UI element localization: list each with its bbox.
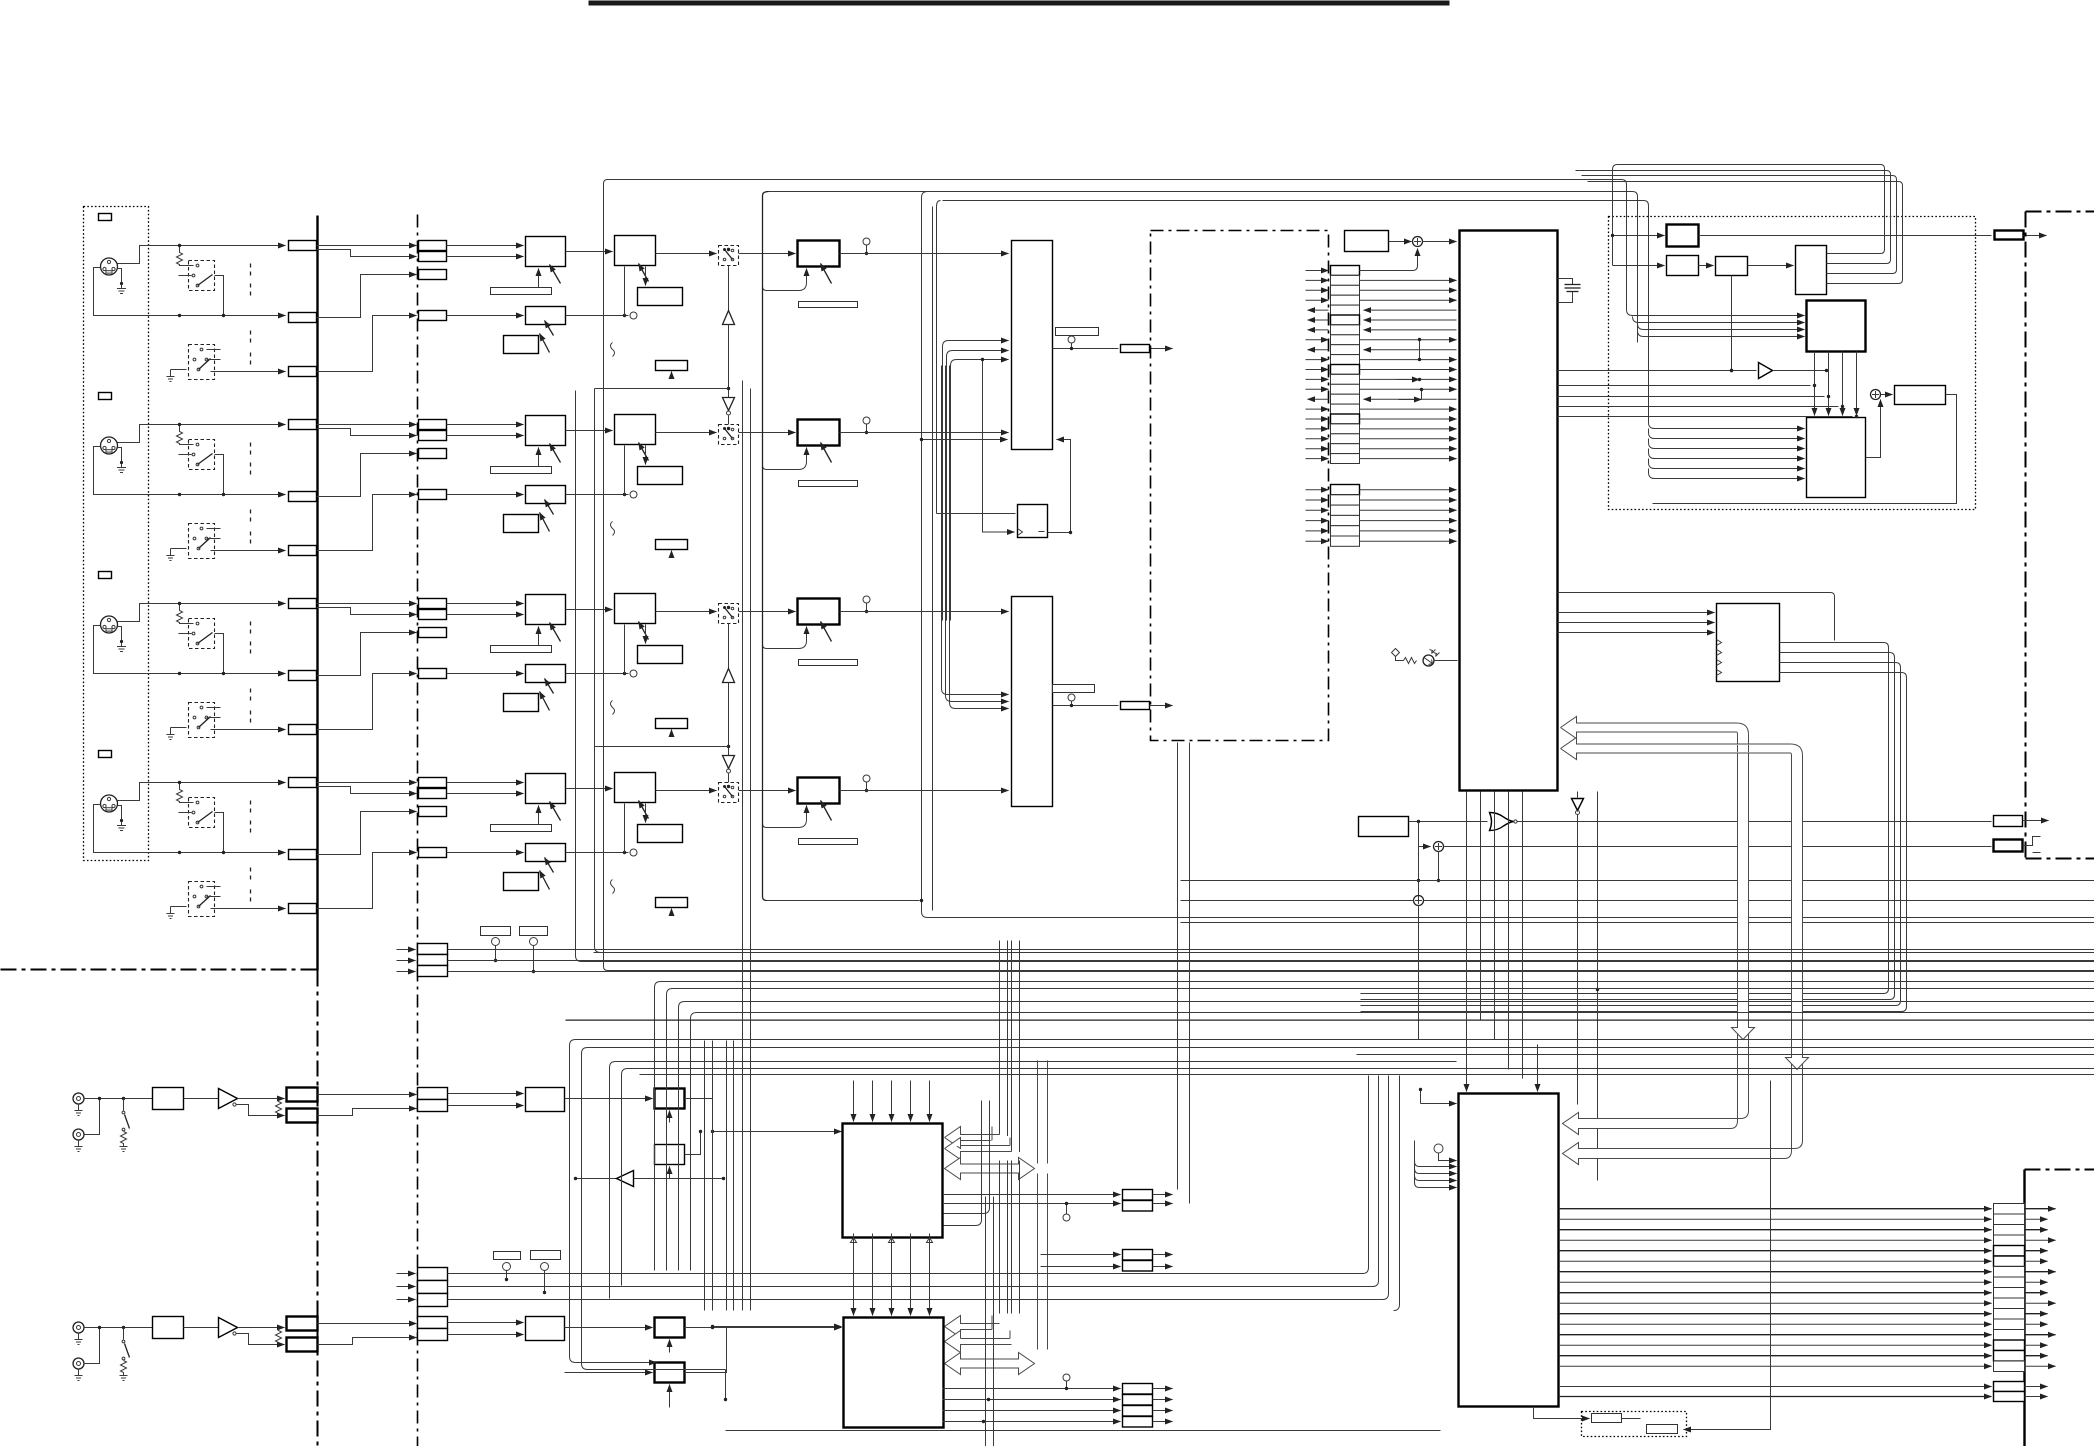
selector 2 curved inputs (942, 366, 1009, 695)
bus B direction arrow (1786, 1053, 1809, 1070)
dsp1 outputs (943, 1194, 1121, 1196)
osc output to connector (1699, 235, 1992, 237)
status connector 2 (1994, 840, 2023, 852)
divider box 2 (1716, 257, 1748, 276)
interface outputs loop (1361, 643, 1889, 994)
bus tap stack upper (418, 944, 448, 955)
main DSP/CPU block (1460, 231, 1558, 791)
codec mid branches (1419, 340, 1421, 360)
codec pin header lower (1331, 485, 1360, 495)
divider curved inputs (1649, 419, 1805, 429)
DSP2 bidirectional bus (945, 1353, 1035, 1375)
long control lines (1181, 880, 2094, 882)
CPU bottom drop wires (1466, 792, 1468, 1037)
inverter below CPU (1577, 792, 1579, 798)
clock selector (1807, 301, 1866, 352)
channel 1 mixing strip (317, 236, 871, 379)
clock divider big (1807, 418, 1866, 498)
selector 1 curved inputs (943, 341, 1009, 621)
output lines to connector stack (1994, 1204, 2025, 1215)
RCA input row 1 (73, 1088, 653, 1152)
long mix verticals (932, 207, 934, 911)
A/D D/A codec board boundary (1151, 231, 1329, 741)
dsp interconnect verticals (853, 1081, 855, 1122)
ch4 fader output (840, 790, 1009, 792)
left curve inputs (1415, 1141, 1457, 1167)
insert feed vertical (763, 192, 769, 196)
mix bus vertical wires (604, 180, 608, 971)
option resistor wires (1534, 1407, 1590, 1419)
title underline bar (589, 1, 1450, 6)
input channel 2 XLR section (94, 393, 317, 561)
trim pots lower (494, 1252, 521, 1260)
sample rate converter latch (1018, 505, 1048, 538)
input selector IC2 (1012, 597, 1053, 807)
CPU com bus A (1561, 717, 1737, 739)
right mesh verticals (1363, 1076, 1369, 1274)
selector to divider verticals (1814, 352, 1816, 416)
clock osc box (1667, 225, 1699, 247)
divider box 1 (1667, 256, 1699, 276)
long bus wires right (928, 917, 2094, 919)
pll feedback riser (1731, 276, 1733, 371)
word clock input lines (1613, 235, 1665, 237)
trim pots upper (481, 927, 511, 936)
sum node (1389, 241, 1412, 243)
crystal (1558, 279, 1573, 285)
input channel 1 XLR section (94, 214, 317, 382)
effect DSP block 2 (844, 1318, 944, 1428)
latch data input (937, 513, 1016, 515)
dsp1 left input (713, 1131, 842, 1133)
selector frame input (922, 439, 1008, 441)
selector curved inputs (1627, 310, 1805, 316)
channel 3 mixing strip (317, 594, 871, 737)
right board boundary dash-dot (2026, 211, 2094, 213)
RCA input row 2 (73, 1317, 653, 1381)
dsp2 left input (713, 1326, 842, 1328)
input channel 3 XLR section (94, 572, 317, 740)
small feed boxes left of DSP2 (655, 1318, 685, 1338)
DSP2 com arrows (945, 1316, 1000, 1338)
pll box (1796, 246, 1827, 295)
final bold pair (1994, 1382, 2025, 1392)
digital bus horizontals (566, 1019, 2094, 1021)
lower bus lines (448, 1273, 1364, 1275)
verticals center mesh (704, 1041, 706, 1311)
input board dotted enclosure (84, 207, 149, 861)
latch feedback loop (1048, 440, 1071, 533)
selector 2 output (1053, 705, 1119, 707)
bus A direction arrow (1732, 1023, 1755, 1040)
pll outputs loop to top (1827, 165, 1885, 254)
cpu clock lines (1558, 385, 1811, 387)
master clock sum (1871, 390, 1881, 400)
OR gate (1409, 821, 1488, 823)
fs select buffer (1558, 370, 1757, 372)
analog bus line 1 (316, 216, 318, 971)
small feed boxes left of DSP1 (655, 1089, 685, 1109)
codec pin stubs and CPU lines (1306, 270, 1329, 272)
top stub inputs (1466, 1037, 1468, 1092)
ch1 fader output (840, 253, 1009, 255)
selector 1 output (1053, 348, 1119, 350)
ch3 fader output (840, 611, 1009, 613)
channel 2 mixing strip (317, 415, 871, 558)
ch2 fader output (840, 432, 1009, 434)
output driver block (1459, 1094, 1559, 1407)
switch control chain ch1/ch2 (595, 266, 735, 425)
control box (1359, 817, 1409, 837)
DSP1 bidirectional bus (945, 1158, 1035, 1180)
board boundary horizontal (1, 969, 318, 971)
audio bus mesh horizontals (582, 961, 2094, 963)
sync detect box (1345, 231, 1389, 252)
clock generator dotted board (1609, 217, 1976, 510)
effect DSP block 1 (843, 1124, 943, 1238)
switch control chain ch3/ch4 (595, 624, 735, 783)
sum node B (1417, 879, 1420, 882)
mix loop top wires (608, 180, 1627, 310)
right long lines lower (1357, 1054, 2094, 1056)
LED indicator (1392, 649, 1400, 657)
left risers for digital bus (570, 1040, 657, 1363)
input selector IC1 (1012, 241, 1053, 450)
input channel 4 XLR section (94, 751, 317, 919)
bus tap stack lower (418, 1268, 448, 1281)
aux connectors (1041, 1254, 1121, 1256)
switch junction dots (727, 248, 730, 251)
loop left returns (1613, 165, 1881, 266)
codec drop verticals (1177, 743, 1179, 1190)
dsp2 outputs (943, 1388, 1121, 1390)
CPU com bus B (1561, 738, 1791, 760)
codec pin header upper (1331, 266, 1360, 276)
monitor line buffer (576, 1178, 724, 1180)
DSP1 com arrows (945, 1127, 1000, 1149)
sum node A (1418, 822, 1420, 901)
status connector 1 (1994, 816, 2023, 827)
interface block right of CPU (1717, 604, 1780, 682)
dsp right corner risers (943, 1101, 990, 1214)
analog bus line 2 (417, 215, 419, 1446)
bottom dotted option box (1582, 1412, 1687, 1437)
channel 4 mixing strip (317, 773, 871, 916)
latch clock input (983, 360, 1015, 533)
